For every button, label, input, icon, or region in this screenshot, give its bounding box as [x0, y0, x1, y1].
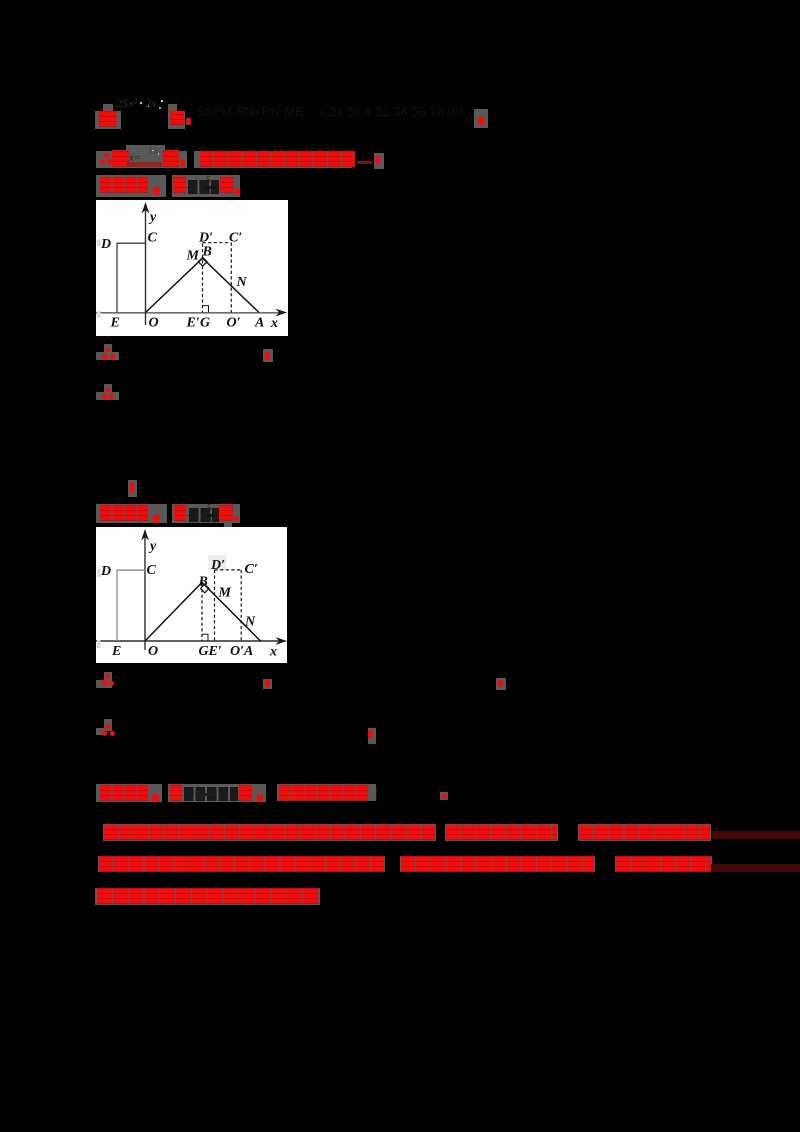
svg-text:x: x [270, 316, 278, 331]
svg-text:E: E [110, 316, 120, 331]
svg-text:M: M [186, 249, 200, 264]
svg-text:x: x [269, 644, 277, 659]
svg-text:O: O [148, 644, 158, 659]
svg-text:E′: E′ [208, 644, 222, 659]
svg-text:E: E [111, 644, 121, 659]
svg-text:N: N [244, 614, 256, 629]
LINE B: ∴ [104, 384, 112, 393]
HEADING: 综上所述，当 x=... 时，...的面积取得最大值... . [96, 784, 163, 802]
svg-text:D′: D′ [210, 558, 225, 573]
svg-text:G: G [200, 316, 210, 331]
PARAGRAPH [103, 824, 436, 841]
svg-text:A: A [254, 316, 264, 331]
LINE 2: ∴当x=10/3 时，的面积最大，最大面积为 25/3， [96, 151, 187, 168]
svg-text:D: D [100, 237, 111, 252]
LINE 1: 当 x = frac 时， ... ， [103, 104, 112, 112]
svg-text:O: O [149, 316, 159, 331]
LINE C: ∴ ... ， ... ， [104, 672, 112, 681]
FIGURE 1 [96, 200, 288, 336]
svg-text:y: y [148, 539, 157, 554]
svg-text:D: D [100, 564, 111, 579]
svg-text:N: N [236, 275, 248, 290]
svg-text:B: B [198, 574, 208, 589]
svg-text:O′: O′ [227, 316, 241, 331]
svg-text:C′: C′ [245, 562, 258, 577]
svg-text:M: M [218, 585, 232, 600]
LINE 4: 如图所示，当 x=.. 时. [96, 504, 167, 523]
svg-text:G: G [199, 644, 209, 659]
LINE A: ∴ ... ， [104, 344, 112, 353]
svg-text:E′: E′ [186, 316, 200, 331]
svg-text:C′: C′ [229, 231, 242, 246]
small highlighted fraction item [128, 480, 137, 497]
svg-text:D′: D′ [198, 231, 213, 246]
svg-text:y: y [148, 210, 157, 225]
svg-text:C: C [147, 563, 157, 578]
FIGURE 2 [96, 527, 287, 663]
svg-text:A: A [243, 644, 253, 659]
LINE 3: 如图所示，当 x=5/4 时， [96, 175, 166, 197]
LINE D: ∴ ... 1/2 [104, 719, 112, 731]
svg-text:B: B [202, 245, 212, 260]
svg-text:C: C [148, 231, 158, 246]
svg-text:O′: O′ [230, 644, 244, 659]
